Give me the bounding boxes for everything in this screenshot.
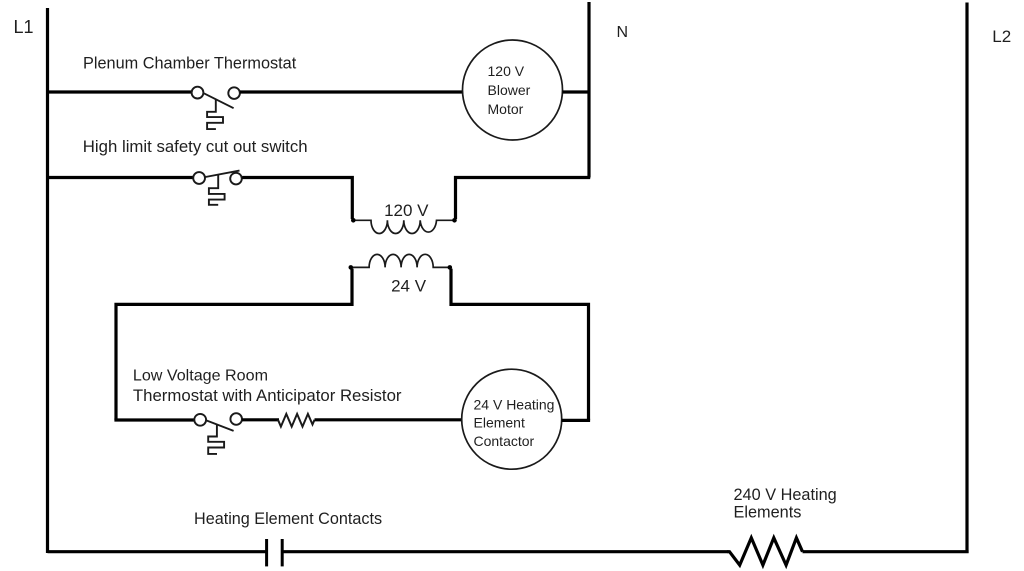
contactor coil K1	[462, 369, 562, 469]
anticipator resistor R1	[278, 414, 315, 427]
wire heating elements to L2	[803, 550, 969, 553]
label 24 V Heating Element Contactor	[474, 396, 555, 448]
rail L1	[46, 8, 49, 553]
svg-text:High limit safety cut out swit: High limit safety cut out switch	[83, 137, 308, 156]
svg-text:N: N	[617, 24, 629, 41]
svg-text:240 V Heating: 240 V Heating	[734, 486, 837, 504]
wire L1 to thermostat S1	[46, 90, 192, 93]
wire blower motor to N	[563, 90, 590, 93]
svg-text:Blower: Blower	[488, 82, 531, 98]
svg-text:L1: L1	[14, 17, 34, 37]
svg-text:Contactor: Contactor	[474, 433, 535, 449]
junction dot primary right	[452, 218, 457, 223]
wire S3 to anticipator resistor	[242, 418, 279, 421]
rail N	[587, 2, 590, 178]
wire to room thermostat S3	[114, 418, 194, 421]
transformer secondary coil T1	[351, 254, 450, 267]
junction dot primary left	[351, 218, 356, 223]
label 120 V Blower Motor	[488, 63, 531, 117]
high limit switch S2	[193, 171, 242, 205]
wire L1 to high limit switch S2	[46, 176, 193, 179]
room thermostat switch S3	[194, 413, 242, 454]
wire R1 to contactor	[315, 418, 463, 421]
transformer primary coil T1	[353, 220, 454, 233]
svg-text:Plenum Chamber Thermostat: Plenum Chamber Thermostat	[83, 54, 297, 72]
blower motor M1	[463, 40, 563, 140]
svg-text:Elements: Elements	[734, 504, 802, 522]
junction dot secondary right	[448, 265, 453, 270]
heating elements resistor R2	[727, 538, 802, 565]
svg-text:Element: Element	[474, 415, 525, 431]
heating element contacts K1 contacts	[267, 539, 283, 566]
svg-text:120 V: 120 V	[384, 201, 429, 220]
wire contactor to right drop	[562, 419, 590, 422]
wire contacts to heating elements	[282, 550, 728, 553]
svg-text:120 V: 120 V	[488, 63, 525, 79]
wire S2 to transformer primary	[242, 178, 352, 220]
wire S1 to blower motor	[240, 90, 464, 93]
thermostat switch S1	[192, 87, 240, 129]
junction dot secondary left	[349, 265, 354, 270]
svg-text:24 V: 24 V	[391, 277, 427, 296]
wire transformer primary to N	[456, 178, 591, 220]
wire secondary left to room thermostat	[116, 269, 352, 420]
wire secondary right to contactor	[451, 269, 589, 421]
svg-text:24 V Heating: 24 V Heating	[474, 396, 555, 412]
svg-text:Heating Element Contacts: Heating Element Contacts	[194, 510, 382, 528]
svg-text:L2: L2	[992, 27, 1011, 46]
svg-text:Motor: Motor	[488, 101, 524, 117]
svg-text:Low Voltage Room: Low Voltage Room	[133, 366, 268, 384]
rail L2	[965, 3, 968, 554]
svg-text:Thermostat with Anticipator Re: Thermostat with Anticipator Resistor	[133, 386, 402, 405]
wire L1 to contacts	[48, 550, 267, 553]
